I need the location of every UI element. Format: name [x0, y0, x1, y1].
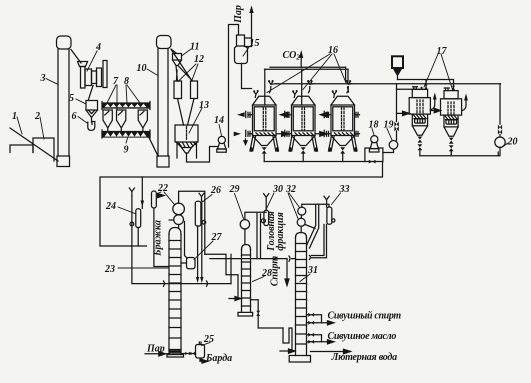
seed vessel 17b	[441, 88, 468, 156]
seed bottom header	[420, 151, 498, 155]
condenser 29	[240, 212, 266, 244]
svg-text:15: 15	[250, 38, 260, 49]
bin hoppers under conveyor	[103, 110, 147, 132]
fusel oil draw-off	[307, 333, 335, 344]
cyclone 11	[173, 54, 182, 66]
svg-text:19: 19	[384, 120, 394, 131]
svg-text:26: 26	[210, 185, 221, 196]
bin 12a	[174, 81, 182, 99]
chute 1	[10, 128, 58, 161]
svg-text:25: 25	[203, 334, 214, 345]
svg-text:13: 13	[199, 100, 209, 111]
bottoms of column 28 to column 31	[251, 300, 295, 353]
dephlegmator 22 circles	[169, 203, 184, 224]
svg-text:20: 20	[507, 137, 518, 148]
steam arrow (Пар) into column 23	[145, 352, 169, 356]
leader lines	[17, 47, 508, 346]
fermenter 16b	[277, 69, 318, 161]
fermenter 16a	[234, 69, 279, 161]
svg-text:18: 18	[369, 120, 379, 131]
bottom screw conveyor 9	[102, 130, 150, 138]
svg-text:Сивушное масло: Сивушное масло	[328, 331, 397, 342]
condenser 33	[310, 196, 335, 259]
pump 14	[217, 25, 239, 153]
trap 6	[88, 122, 95, 131]
fermenter bottom collection header	[264, 161, 365, 163]
svg-text:Сивушный спирт: Сивушный спирт	[328, 311, 402, 322]
svg-text:3: 3	[40, 73, 46, 84]
svg-text:22: 22	[157, 183, 168, 194]
pot 27	[181, 258, 195, 269]
seed vessel 17a	[409, 87, 437, 156]
spouts from bins to mixer 13	[178, 99, 195, 126]
bucket elevator 3	[57, 36, 82, 167]
svg-text:8: 8	[124, 76, 129, 87]
seed feed line	[398, 80, 454, 91]
svg-text:фракция: фракция	[275, 212, 286, 251]
svg-text:2: 2	[34, 111, 40, 122]
number labels	[12, 38, 518, 345]
svg-text:1: 1	[12, 111, 17, 122]
svg-text:27: 27	[211, 232, 223, 243]
bin 12b	[191, 81, 198, 99]
feed arrow into column 28	[229, 297, 241, 301]
pump 18 with tank	[365, 136, 383, 164]
bucket elevator 10	[157, 36, 193, 168]
svg-text:4: 4	[95, 42, 101, 53]
chute from conveyor 9 to elevator 10	[149, 138, 158, 157]
roller mill 4	[78, 61, 108, 100]
svg-text:Барда: Барда	[205, 353, 232, 364]
top screw conveyor 7-8	[102, 102, 150, 110]
product line (head fraction/spirit)	[210, 256, 296, 286]
vapour line to column 28	[205, 254, 238, 296]
svg-text:Пар: Пар	[146, 344, 165, 355]
svg-text:Спирт: Спирт	[269, 256, 280, 287]
svg-text:9: 9	[124, 145, 129, 156]
svg-text:29: 29	[229, 184, 240, 195]
stillage vessel 25	[196, 342, 208, 363]
pump 19	[383, 84, 424, 153]
svg-text:6: 6	[72, 111, 77, 122]
pipe 15 to fermenter 1	[242, 64, 252, 89]
pipe 32 to 33	[302, 204, 329, 248]
svg-text:10: 10	[137, 63, 147, 74]
svg-text:12: 12	[194, 54, 204, 65]
stillage line with valves	[181, 352, 196, 356]
CO2 double header	[265, 67, 349, 82]
transfer arrow 17a to 17b	[430, 108, 440, 112]
svg-text:14: 14	[214, 115, 224, 126]
rectifying column 31	[289, 233, 310, 363]
bottoms cross line	[132, 246, 231, 286]
svg-text:Пар: Пар	[233, 5, 244, 24]
inlet arrow to 17a	[397, 111, 410, 115]
fermenter 3 header valve	[348, 87, 349, 92]
svg-text:24: 24	[105, 201, 116, 212]
hopper 5	[86, 101, 98, 123]
svg-text:17: 17	[437, 46, 448, 57]
dephlegmator 32 circles	[297, 207, 306, 232]
svg-text:Бражка: Бражка	[153, 220, 164, 257]
mash preheater 24	[136, 209, 141, 246]
reflux pipe to pot 27	[179, 222, 187, 258]
steam separator 15	[235, 35, 252, 64]
svg-text:32: 32	[285, 184, 296, 195]
head cooler 30	[257, 194, 269, 259]
svg-text:5: 5	[69, 93, 74, 104]
mash column 23	[167, 228, 184, 358]
svg-text:31: 31	[307, 265, 318, 276]
svg-text:16: 16	[328, 45, 338, 56]
svg-text:33: 33	[339, 184, 350, 195]
fermenter 16c	[316, 80, 360, 161]
CO2 vent arrow	[299, 50, 303, 67]
svg-text:23: 23	[104, 264, 115, 275]
mash transfer line (loop)	[100, 162, 383, 247]
CO2 trap vessel	[152, 191, 170, 267]
svg-text:30: 30	[272, 184, 283, 195]
pump 20	[495, 84, 505, 156]
pipe 22 to 26	[179, 191, 205, 254]
crossing spouts to bins 12	[176, 66, 193, 82]
epuration column 28	[238, 245, 253, 317]
drop into preheater 24	[141, 177, 145, 209]
svg-text:11: 11	[190, 42, 199, 53]
receiving hopper 2	[33, 138, 54, 161]
upper distribution header	[276, 83, 500, 85]
mixer tank 13	[175, 125, 218, 162]
feed hopper (top right)	[392, 56, 403, 79]
fusel spirit draw-off	[307, 313, 335, 325]
svg-text:Лютерная вода: Лютерная вода	[331, 352, 398, 363]
steam vent arrow (Пар)	[249, 6, 253, 39]
luter water outlet	[311, 349, 351, 354]
vent line with Y	[129, 188, 134, 246]
condenser 26	[195, 193, 205, 283]
